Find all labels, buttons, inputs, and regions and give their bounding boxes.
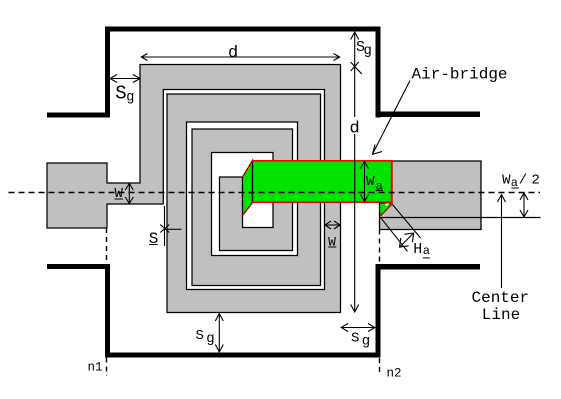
svg-text:2: 2 bbox=[532, 173, 540, 189]
svg-text:W: W bbox=[502, 172, 511, 188]
svg-text:g: g bbox=[362, 334, 370, 350]
svg-text:S: S bbox=[351, 330, 359, 346]
svg-text:S: S bbox=[196, 328, 204, 344]
svg-text:a: a bbox=[376, 180, 383, 194]
svg-text:g: g bbox=[206, 331, 214, 347]
svg-text:H: H bbox=[413, 241, 422, 258]
svg-text:Center: Center bbox=[472, 289, 530, 307]
svg-text:a: a bbox=[423, 244, 430, 258]
svg-text:n2: n2 bbox=[387, 367, 402, 381]
svg-text:Line: Line bbox=[482, 306, 520, 324]
svg-text:/: / bbox=[519, 173, 527, 189]
svg-text:W: W bbox=[366, 174, 375, 190]
svg-text:S: S bbox=[149, 230, 159, 248]
svg-text:Air-bridge: Air-bridge bbox=[412, 66, 508, 84]
svg-text:d: d bbox=[350, 120, 360, 139]
svg-text:n1: n1 bbox=[88, 361, 103, 375]
svg-text:S: S bbox=[115, 83, 126, 105]
svg-text:W: W bbox=[115, 186, 124, 202]
svg-text:d: d bbox=[228, 44, 238, 63]
svg-text:g: g bbox=[126, 91, 134, 106]
svg-text:g: g bbox=[364, 43, 372, 59]
